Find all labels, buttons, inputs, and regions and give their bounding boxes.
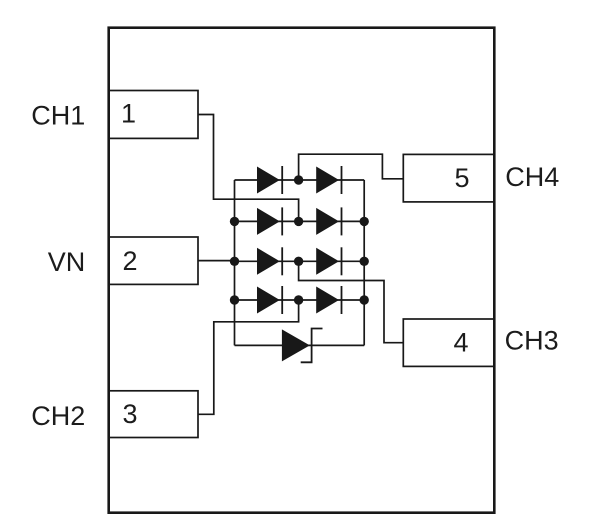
svg-text:CH2: CH2 — [31, 401, 85, 431]
svg-text:VN: VN — [48, 247, 86, 277]
svg-text:CH3: CH3 — [505, 326, 559, 356]
svg-text:5: 5 — [455, 163, 470, 193]
svg-text:3: 3 — [123, 399, 138, 429]
svg-text:2: 2 — [123, 246, 138, 276]
svg-text:1: 1 — [121, 99, 136, 129]
svg-text:4: 4 — [454, 328, 469, 358]
svg-text:CH4: CH4 — [505, 162, 559, 192]
svg-text:CH1: CH1 — [31, 100, 85, 130]
